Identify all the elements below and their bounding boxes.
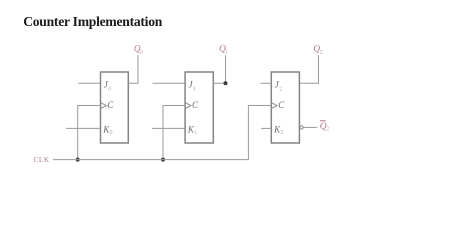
- wire K1 stub: [152, 127, 185, 129]
- label J1: [189, 79, 197, 92]
- junction dot CLK/U0: [76, 158, 80, 162]
- svg-text:2: 2: [326, 126, 329, 132]
- label J0: [104, 79, 112, 92]
- svg-text:2: 2: [320, 50, 323, 56]
- wire Q1 output: [213, 55, 225, 83]
- wire Q2 output: [299, 55, 318, 83]
- wire J0 stub: [79, 82, 101, 84]
- label J2: [275, 79, 283, 92]
- junction dot Q1: [224, 81, 228, 85]
- wire J2 stub: [261, 82, 272, 84]
- label Qbar2: [320, 121, 330, 133]
- clock chevron U2: [272, 103, 277, 109]
- svg-text:Counter Implementation: Counter Implementation: [23, 14, 163, 29]
- svg-text:C: C: [278, 100, 285, 110]
- svg-text:0: 0: [110, 130, 113, 136]
- label K0: [102, 125, 112, 136]
- junction dot CLK/U1: [161, 158, 165, 162]
- svg-text:0: 0: [140, 50, 143, 56]
- svg-text:2: 2: [280, 130, 283, 136]
- svg-text:1: 1: [225, 50, 228, 56]
- wire Q0 output: [128, 55, 138, 83]
- label Q0: [134, 45, 143, 56]
- wire Qbar2: [304, 126, 318, 128]
- wire J1 stub: [153, 82, 186, 84]
- svg-text:C: C: [192, 100, 199, 110]
- label Q2: [313, 45, 322, 56]
- svg-text:1: 1: [194, 130, 197, 136]
- svg-text:2: 2: [279, 86, 282, 92]
- flip-flop U0: [101, 72, 129, 143]
- svg-text:1: 1: [193, 86, 196, 92]
- svg-text:0: 0: [108, 86, 111, 92]
- wire CLK to U0 clock: [78, 106, 101, 160]
- label K2: [273, 125, 283, 136]
- wire CLK to U1 clock: [163, 106, 185, 160]
- wire CLK to U2 clock: [248, 106, 271, 160]
- svg-text:CLK: CLK: [34, 156, 50, 164]
- clock chevron U1: [186, 103, 191, 109]
- label K1: [187, 125, 197, 136]
- inversion bubble U2 Qbar: [300, 126, 303, 129]
- svg-text:C: C: [107, 100, 114, 110]
- wire K0 stub: [66, 127, 101, 129]
- clock chevron U0: [101, 103, 106, 109]
- wire CLK bus: [53, 159, 249, 161]
- flip-flop U2: [271, 72, 299, 143]
- flip-flop U1: [185, 72, 213, 143]
- wire K2 stub: [261, 127, 271, 129]
- label Q1: [219, 45, 228, 56]
